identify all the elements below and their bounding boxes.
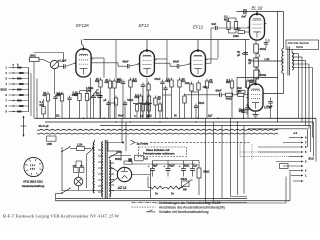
svg-text:80kΩ: 80kΩ [226, 97, 232, 101]
svg-text:1MΩ: 1MΩ [233, 34, 239, 38]
svg-text:1,5A: 1,5A [77, 143, 83, 147]
svg-text:C: C [134, 115, 136, 118]
svg-text:kΩ: kΩ [209, 80, 213, 84]
svg-text:1MΩ: 1MΩ [86, 89, 91, 92]
svg-text:50nF: 50nF [118, 114, 124, 117]
svg-text:10W: 10W [47, 142, 53, 146]
svg-text:+: + [188, 164, 190, 168]
svg-text:Potenziometer entfernen: Potenziometer entfernen [143, 152, 175, 156]
svg-text:2p.Relais: 2p.Relais [137, 142, 149, 146]
svg-text:50nF: 50nF [155, 77, 161, 81]
svg-text:DKS: DKS [117, 150, 123, 154]
svg-text:MΩ: MΩ [133, 79, 137, 83]
svg-text:9nF: 9nF [212, 22, 217, 26]
svg-text:50nF: 50nF [127, 98, 133, 102]
svg-text:0,8: 0,8 [144, 157, 148, 160]
svg-text:50nF: 50nF [198, 101, 204, 105]
svg-text:0,1µF: 0,1µF [60, 58, 67, 62]
svg-text:30kΩ: 30kΩ [181, 177, 187, 181]
svg-text:Diese Brücken mit: Diese Brücken mit [146, 148, 170, 152]
svg-text:MΩ: MΩ [134, 95, 138, 99]
svg-text:1 2 3: 1 2 3 [30, 165, 36, 167]
svg-text:Schalter mit Bereitschaftsstel: Schalter mit Bereitschaftsstellung [159, 210, 209, 214]
svg-text:a b: a b [294, 132, 298, 135]
svg-text:+: + [148, 164, 150, 168]
svg-text:80nF: 80nF [173, 60, 180, 64]
svg-text:AF12 (6)12 AZ12: AF12 (6)12 AZ12 [23, 179, 43, 183]
svg-text:2nF: 2nF [116, 77, 121, 81]
svg-text:kΩ: kΩ [43, 93, 47, 97]
svg-text:20µF: 20µF [267, 105, 273, 109]
svg-text:EF12: EF12 [139, 23, 150, 28]
svg-text:MΩ: MΩ [56, 93, 60, 97]
svg-text:Dr: Dr [155, 192, 158, 196]
svg-text:600Ω: 600Ω [260, 47, 266, 51]
svg-text:kΩ: kΩ [95, 79, 99, 83]
svg-text:C: C [268, 38, 270, 42]
svg-text:4 5 6: 4 5 6 [30, 168, 36, 171]
svg-text:2µF: 2µF [208, 114, 213, 117]
svg-text:+: + [179, 164, 181, 168]
svg-text:Gesamtschaltung: Gesamtschaltung [22, 184, 45, 188]
svg-text:EL 12: EL 12 [252, 6, 264, 11]
svg-text:1kΩ: 1kΩ [236, 26, 241, 30]
svg-text:(+b): (+b) [265, 57, 270, 61]
svg-text:BU2: BU2 [309, 157, 315, 161]
svg-text:80nF: 80nF [123, 60, 130, 64]
svg-text:80nF: 80nF [216, 88, 223, 92]
svg-text:60+C µF: 60+C µF [39, 124, 50, 128]
svg-text:1kΩ: 1kΩ [237, 86, 242, 90]
svg-text:100Ω: 100Ω [30, 54, 36, 57]
svg-text:600Ω: 600Ω [296, 45, 304, 49]
svg-text:200Ω: 200Ω [260, 73, 266, 77]
svg-text:MΩ: MΩ [226, 80, 230, 84]
svg-text:kΩ: kΩ [105, 80, 109, 84]
svg-text:+: + [163, 164, 165, 168]
svg-text:Anschlüsse des Anodenstromschr: Anschlüsse des Anodenstromschreibers(3A) [159, 206, 225, 210]
svg-text:2Ω: 2Ω [56, 115, 59, 118]
svg-text:EF12: EF12 [193, 25, 204, 30]
svg-text:1kΩ: 1kΩ [185, 81, 190, 85]
svg-text:nF: nF [158, 97, 162, 101]
svg-text:µF: µF [237, 54, 240, 57]
svg-text:MΩ: MΩ [165, 79, 169, 83]
svg-text:Verbindungen der Netzbestückun: Verbindungen der Netzbestückung ‹EL12› [159, 201, 221, 205]
svg-text:20nF: 20nF [239, 109, 245, 113]
svg-text:8nF: 8nF [242, 15, 247, 19]
svg-text:BU1: BU1 [1, 89, 7, 92]
svg-text:MΩ: MΩ [73, 93, 77, 97]
svg-text:EF12K: EF12K [76, 23, 90, 28]
svg-text:µF: µF [104, 98, 107, 102]
svg-text:AZ 12: AZ 12 [117, 186, 127, 190]
svg-text:+: + [242, 52, 244, 56]
svg-text:Ω: Ω [147, 115, 149, 118]
svg-text:Dr: Dr [171, 192, 174, 196]
svg-text:50kΩ: 50kΩ [203, 170, 209, 174]
